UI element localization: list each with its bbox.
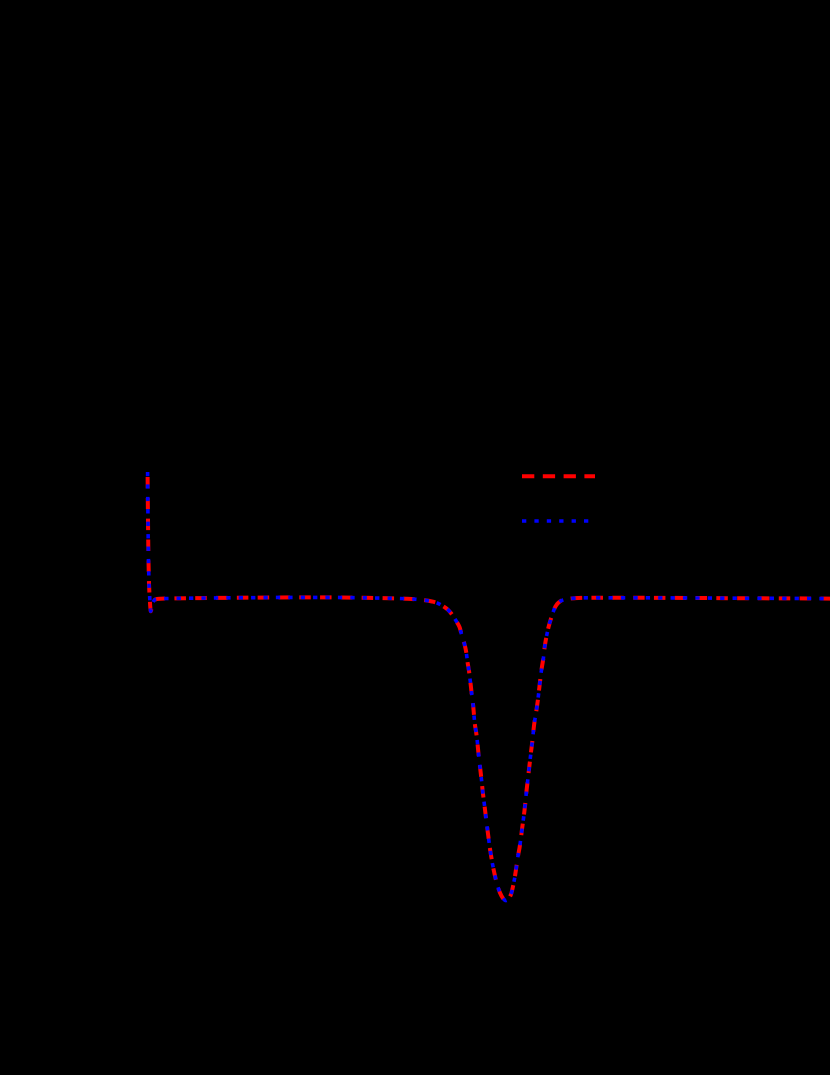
legend red dashed sample: [522, 474, 595, 478]
legend blue dotted sample: [522, 519, 588, 523]
red dashed transmission curve: [148, 472, 830, 901]
blue dotted transmission curve: [148, 472, 830, 901]
